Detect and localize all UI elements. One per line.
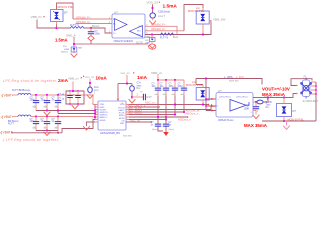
svg-text:1.5mA: 1.5mA xyxy=(55,37,68,42)
wire row1 xyxy=(31,95,95,105)
svg-text:xxx_xx: xxx_xx xyxy=(85,75,95,79)
svg-text:IN2+: IN2+ xyxy=(137,34,142,36)
ground arrow IC left xyxy=(83,126,90,130)
junction xyxy=(165,118,167,120)
svg-text:ADC_xx→: ADC_xx→ xyxy=(145,101,158,105)
junction xyxy=(35,94,37,96)
svg-text:RST: RST xyxy=(120,123,125,125)
junction xyxy=(165,79,167,81)
connector J1 xyxy=(301,75,312,99)
wire ADC out 8 xyxy=(126,121,152,123)
junction xyxy=(69,90,71,92)
wire label to loop xyxy=(72,82,74,92)
IC left pin stubs xyxy=(95,105,98,120)
wire ADC out 2 xyxy=(129,106,160,108)
wire AGND vertical xyxy=(73,38,75,53)
junction xyxy=(131,96,133,98)
junction xyxy=(151,33,153,35)
svg-text:FLT? N: FLT? N xyxy=(70,23,79,27)
inductor FL4 xyxy=(8,115,31,126)
wire opamp input 1 xyxy=(73,18,112,20)
pin stub opamp3 out3 xyxy=(253,110,256,112)
ferrite bead FB3v xyxy=(130,82,144,97)
junction xyxy=(315,93,317,95)
wire row2 xyxy=(31,116,95,119)
capacitor C16 lower xyxy=(151,117,164,131)
svg-text:VDD_5V: VDD_5V xyxy=(147,0,159,4)
capacitor C1 xyxy=(88,28,101,36)
wire diamond to rail xyxy=(90,41,92,44)
wire left pin column xyxy=(94,105,96,120)
junction xyxy=(165,116,167,118)
inductor FL2 xyxy=(160,33,179,40)
ferrite bead FB3 xyxy=(257,98,272,110)
wire bank bus xyxy=(158,79,184,81)
wire VDD rail xyxy=(118,83,132,85)
wire ADC out 4 xyxy=(129,111,184,113)
pin arrows opamp3 xyxy=(212,98,214,111)
junction xyxy=(157,116,159,118)
ground spur IC pin xyxy=(87,122,96,126)
ground arrow row2 xyxy=(44,131,51,136)
wire TVS bottom to rail xyxy=(56,25,58,29)
capacitor C11 xyxy=(132,94,152,100)
ferrite bead FB2 xyxy=(88,83,100,95)
wire bank stub xyxy=(157,76,159,80)
net label AGND top xyxy=(66,34,76,39)
wire IC top pin xyxy=(117,84,119,99)
svg-text:LPF,Reg should be together,: LPF,Reg should be together, xyxy=(3,79,58,83)
junction xyxy=(46,115,48,117)
wire port2 xyxy=(12,116,18,118)
junction xyxy=(46,94,48,96)
svg-text:FLT?: FLT? xyxy=(8,122,14,126)
ground chevron small xyxy=(150,45,155,48)
svg-text:x_OPA: x_OPA xyxy=(224,75,233,79)
svg-text:100n: 100n xyxy=(178,86,184,88)
svg-text:100n: 100n xyxy=(30,99,36,102)
junction xyxy=(69,103,71,105)
junction xyxy=(73,43,75,45)
op-amp U3 xyxy=(216,89,253,117)
junction xyxy=(57,94,59,96)
junction xyxy=(183,111,185,113)
capacitor C5 xyxy=(52,95,62,111)
capacitor C13 xyxy=(160,80,170,120)
wire ADC out 3 xyxy=(129,106,211,110)
svg-text:FLT? BF/Bxxx(+: FLT? BF/Bxxx(+ xyxy=(12,88,31,92)
pin arrows jack xyxy=(296,85,298,95)
junction xyxy=(90,27,92,29)
svg-text:MOSI 6V P BL: MOSI 6V P BL xyxy=(188,10,205,13)
svg-text:VDD_xx: VDD_xx xyxy=(151,71,163,75)
jack right stubs xyxy=(311,82,316,94)
capacitor C12 xyxy=(152,80,162,117)
wire opamp3 out2 xyxy=(253,101,256,103)
pin arrow IC top xyxy=(117,98,119,101)
wire VDD stub xyxy=(126,75,128,84)
svg-text:VBB_xx: VBB_xx xyxy=(68,77,79,81)
svg-text:VDD: VDD xyxy=(120,104,125,106)
wire jack feed top xyxy=(291,79,312,86)
capacitor C9 xyxy=(67,91,73,104)
junction xyxy=(77,90,79,92)
junction xyxy=(205,98,207,100)
capacitor C4 xyxy=(41,95,51,111)
ADC U2 xyxy=(98,101,126,130)
capacitor C17 lower xyxy=(163,120,175,133)
junction xyxy=(35,115,37,117)
svg-text:100n: 100n xyxy=(244,107,250,110)
test point TP2 branch xyxy=(145,35,155,49)
rail wire middle xyxy=(145,22,211,35)
ground rail row2 xyxy=(36,130,58,132)
svg-text:C? 1u: C? 1u xyxy=(58,99,65,101)
capacitor C18 branch xyxy=(244,102,260,114)
svg-text:( LPF,Reg should be together,: ( LPF,Reg should be together, xyxy=(3,138,59,142)
svg-text:VOUT=+/-10V: VOUT=+/-10V xyxy=(262,87,290,92)
svg-text:1.5mA: 1.5mA xyxy=(163,4,178,10)
svg-text:OPA2171xxx: OPA2171xxx xyxy=(218,118,234,122)
junction xyxy=(205,105,207,107)
junction xyxy=(283,96,285,98)
ground rail right xyxy=(262,120,316,122)
inductor FL1 xyxy=(70,23,84,29)
wire ADC out 1 xyxy=(129,104,208,106)
junction xyxy=(157,79,159,81)
pin arrow rail2 end xyxy=(211,104,213,106)
junction xyxy=(174,103,176,105)
net label VDD bank xyxy=(151,71,163,76)
svg-text:(blue): (blue) xyxy=(152,129,158,131)
TVS diode D6 xyxy=(196,85,209,105)
ground arrow FB2 xyxy=(87,95,94,99)
junction xyxy=(46,129,48,131)
ground arrow xyxy=(71,53,78,57)
svg-text:C1B (blue): C1B (blue) xyxy=(158,11,170,14)
junction xyxy=(315,85,317,87)
net label VDD_3V xyxy=(121,71,135,75)
junction xyxy=(72,90,74,92)
power arrow down xyxy=(163,132,169,136)
svg-text:❮VBAT-: ❮VBAT- xyxy=(1,115,13,119)
svg-text:ADS124S08_BS: ADS124S08_BS xyxy=(100,131,120,135)
junction xyxy=(202,103,204,105)
wire U1 out top xyxy=(145,26,177,34)
svg-text:ADCxxx_x: ADCxxx_x xyxy=(178,118,191,122)
svg-text:xxPxxl Pxxx: xxPxxl Pxxx xyxy=(219,96,232,98)
svg-text:ADCxxx_x→: ADCxxx_x→ xyxy=(186,111,202,115)
wire to FB2 xyxy=(89,79,91,83)
pin stub y122 xyxy=(95,121,98,123)
TVS diode D7 xyxy=(277,98,292,122)
svg-text:VBB_IN: VBB_IN xyxy=(31,15,42,19)
pin arrow out6 xyxy=(187,116,189,118)
op-amp U1 xyxy=(112,11,145,39)
net tie diamond xyxy=(88,36,94,41)
junction xyxy=(267,96,269,98)
net label VDD loop xyxy=(68,77,82,81)
svg-text:MOSI 6V P BL: MOSI 6V P BL xyxy=(58,6,74,9)
net label VBB_IN xyxy=(31,15,46,19)
value label D6 xyxy=(186,81,203,87)
wire jack ground rail xyxy=(315,82,317,121)
pin numbers U1 xyxy=(109,18,149,35)
svg-text:xGND: xGND xyxy=(100,120,106,122)
junction xyxy=(89,82,91,84)
junction xyxy=(55,27,57,29)
wire VBB_IN stub xyxy=(37,20,70,29)
svg-text:VBB_SW: VBB_SW xyxy=(213,17,226,21)
junction xyxy=(57,115,59,117)
junction xyxy=(315,89,317,91)
inductor FL3 xyxy=(12,88,31,95)
svg-text:D?: D? xyxy=(64,11,68,15)
svg-text:100n: 100n xyxy=(95,33,101,36)
svg-text:OPA1M_A>: OPA1M_A> xyxy=(151,27,166,31)
svg-text:Bxxx: Bxxx xyxy=(173,36,179,39)
ground arrow row1 xyxy=(44,111,51,116)
svg-text:IN2-: IN2- xyxy=(137,31,141,33)
wire TVS top loop xyxy=(57,3,74,19)
capacitor C6 xyxy=(30,117,40,131)
ground arrow rail xyxy=(283,121,290,129)
capacitor C14 xyxy=(169,80,179,115)
junction xyxy=(255,101,257,103)
wire opamp3 out xyxy=(253,94,296,98)
wire opamp3 left feed xyxy=(206,79,216,111)
wire VOUT top rail xyxy=(196,79,262,85)
capacitor C7 xyxy=(41,117,51,131)
junction xyxy=(174,79,176,81)
net tie oval xyxy=(149,44,156,49)
wire ADC out 6 xyxy=(129,116,187,118)
net label VBB_SW xyxy=(210,17,225,21)
junction xyxy=(126,82,128,84)
svg-text:SC70: SC70 xyxy=(136,41,143,45)
svg-text:xxx xxx: xxx xxx xyxy=(123,134,132,137)
svg-text:ADC_xx: ADC_xx xyxy=(130,119,141,123)
svg-text:FLT? N: FLT? N xyxy=(160,36,168,39)
svg-text:x_1N>: x_1N> xyxy=(236,75,245,79)
ground arrow IC xyxy=(129,97,136,103)
capacitor C15 xyxy=(178,80,188,112)
svg-text:xxxx T: xxxx T xyxy=(158,15,166,18)
svg-text:xxxx xxx: xxxx xxx xyxy=(229,80,239,83)
svg-text:(xxxx): (xxxx) xyxy=(61,51,68,54)
svg-text:C? 1u: C? 1u xyxy=(58,94,65,96)
junction xyxy=(283,120,285,122)
junction xyxy=(205,77,207,79)
ground arrow C18 xyxy=(253,115,260,119)
junction xyxy=(46,109,48,111)
value label D5 xyxy=(188,7,205,13)
junction xyxy=(57,109,59,111)
wire U1 out mid to TVS2 loop xyxy=(145,30,184,32)
junction xyxy=(77,103,79,105)
junction xyxy=(157,116,159,118)
loop rect wires xyxy=(66,91,84,104)
ground arrow loop xyxy=(72,104,79,109)
svg-text:10u: 10u xyxy=(41,99,46,102)
svg-text:10u: 10u xyxy=(41,120,46,123)
IC right pin stubs xyxy=(126,105,129,120)
svg-text:OPA2171AIDCK: OPA2171AIDCK xyxy=(114,39,134,43)
svg-text:IN-: IN- xyxy=(113,24,116,26)
svg-text:100n: 100n xyxy=(30,120,36,123)
wire ADC out 7 xyxy=(129,119,166,121)
junction xyxy=(202,33,204,35)
svg-text:100n: 100n xyxy=(169,86,175,88)
capacitor C10 xyxy=(75,91,81,104)
pin arrow rail1 end xyxy=(208,104,210,106)
ground rail wire xyxy=(74,43,148,45)
svg-text:MAX 35mA: MAX 35mA xyxy=(244,123,268,128)
wire rail to opamp pin3 xyxy=(84,28,112,33)
svg-text:D?: D? xyxy=(293,109,297,113)
wire TVS2 loop xyxy=(184,5,203,31)
svg-text:OUT: OUT xyxy=(138,26,143,28)
capacitor C8 xyxy=(52,117,62,133)
junction xyxy=(94,109,96,111)
svg-text:xxPxxl Pxxx: xxPxxl Pxxx xyxy=(236,96,249,98)
junction xyxy=(57,132,59,134)
TVS diode D5 xyxy=(196,8,209,35)
junction xyxy=(94,112,96,114)
svg-text:(blue): (blue) xyxy=(169,129,175,131)
wire port3 xyxy=(11,132,62,134)
pin numbers IC left xyxy=(92,103,94,120)
rail row1b xyxy=(58,111,95,114)
svg-text:❮VBAT+: ❮VBAT+ xyxy=(1,93,14,97)
rail row2b xyxy=(62,120,95,133)
net label VDD_x xyxy=(83,75,95,79)
wire port1 xyxy=(12,94,18,96)
capacitor C3 xyxy=(30,95,40,111)
junction xyxy=(94,116,96,118)
ferrite bead FB1 column xyxy=(147,0,171,24)
svg-text:ADC_MOSI: ADC_MOSI xyxy=(128,111,142,115)
svg-text:10uA: 10uA xyxy=(96,76,108,81)
ground rail row1 xyxy=(36,110,95,112)
svg-text:1mA: 1mA xyxy=(137,75,148,80)
TVS diode D4 xyxy=(51,7,64,25)
svg-text:xxx_xx: xxx_xx xyxy=(121,71,131,75)
cap labels left xyxy=(58,94,65,101)
wire ADC out 5 xyxy=(129,114,175,116)
wire TVS3 loop xyxy=(196,79,203,85)
test point TP1 xyxy=(61,45,83,54)
svg-text:B(xxx): B(xxx) xyxy=(92,24,99,28)
wire opamp input 2 xyxy=(76,23,113,25)
